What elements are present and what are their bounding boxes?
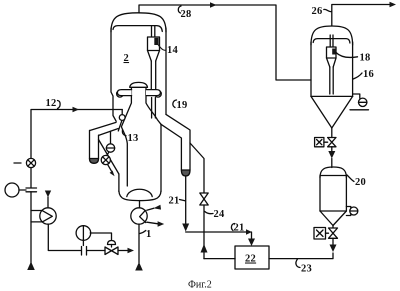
vessel 16 dome bbox=[311, 26, 353, 45]
lance 18 cone bbox=[327, 58, 330, 67]
lance 18 stem bbox=[329, 35, 331, 47]
label 26 squiggle bbox=[324, 9, 332, 11]
wire valve out + arrow bbox=[87, 250, 105, 252]
vessel 2 inner dome line bbox=[113, 26, 162, 32]
lance 18 dark insert bbox=[332, 49, 336, 55]
inlet arrow bottom (line 1) bbox=[135, 262, 143, 271]
wire orifice down bbox=[30, 192, 32, 263]
wire line 28 top from vessel 2 to right bbox=[139, 5, 311, 80]
funnel left diagonal bbox=[99, 140, 119, 175]
arrow on line 12 bbox=[73, 107, 80, 112]
vessel 16 cone bbox=[311, 96, 332, 128]
label 16 leader bbox=[353, 73, 362, 79]
baffle left arm bbox=[117, 91, 124, 98]
vessel 16 right wall bbox=[352, 42, 354, 96]
wire pump P1 discharge bbox=[48, 224, 80, 250]
svg-text:28: 28 bbox=[181, 9, 192, 20]
label 14 leader bbox=[158, 45, 167, 51]
node circle 13 bbox=[119, 115, 125, 121]
lance 14 stem bbox=[151, 26, 153, 37]
wire 1 below pump bbox=[138, 224, 140, 263]
svg-text:Фиг.2: Фиг.2 bbox=[188, 280, 212, 291]
wire valve to line 23 bbox=[332, 238, 334, 245]
vessel 20 inner dome line bbox=[320, 175, 346, 177]
spray arrow bbox=[108, 164, 112, 171]
orifice flange pair bbox=[26, 187, 37, 189]
vessel 2 outer shell dome bbox=[111, 13, 166, 32]
svg-text:2: 2 bbox=[124, 53, 130, 64]
vessel 16 side blower stub bbox=[353, 94, 360, 98]
wire box22 left to line24 bbox=[204, 258, 235, 260]
wire line 12 bbox=[31, 110, 122, 159]
pump P2 top arrow line bbox=[147, 208, 154, 210]
wire 26 out top bbox=[332, 5, 390, 27]
funnel neck left + bell left edge bbox=[121, 87, 131, 186]
label 19 leader bbox=[173, 100, 177, 108]
lance 18 tube bbox=[329, 67, 331, 94]
label 21 right leader bbox=[231, 224, 234, 231]
svg-text:21: 21 bbox=[234, 223, 245, 234]
label 13 leader bbox=[122, 130, 126, 136]
vessel 2 right wall bbox=[165, 28, 167, 114]
svg-text:20: 20 bbox=[355, 177, 366, 188]
vessel 20 blower circle bbox=[350, 207, 358, 215]
label 21 left leader bbox=[180, 200, 186, 201]
outlet pipe 19 top wall bbox=[166, 114, 190, 170]
outlet duct left lower wall bbox=[99, 129, 118, 136]
lance 14 tube lower bbox=[151, 98, 153, 119]
wire valve to orifice bbox=[30, 168, 32, 188]
label 20 leader bbox=[347, 175, 354, 182]
vessel 16 bottom line bbox=[311, 95, 353, 97]
lance 14 cone bbox=[148, 51, 152, 62]
rotary valve RV2 bbox=[329, 228, 338, 233]
svg-text:23: 23 bbox=[301, 264, 312, 275]
svg-text:12: 12 bbox=[46, 98, 57, 109]
wire into pump P1 bottom-left bbox=[31, 221, 42, 223]
left dip tube cap bbox=[90, 159, 99, 164]
wire valve to vessel 20 bbox=[331, 147, 333, 152]
instrument I2 bbox=[76, 226, 91, 241]
flange pair on discharge bbox=[81, 247, 83, 256]
label 28 leader hook bbox=[178, 6, 181, 13]
lance 14 tube upper bbox=[150, 61, 152, 90]
blower circle bbox=[359, 98, 367, 106]
arrow on line 28 bbox=[210, 2, 217, 7]
left dip tube wall left bbox=[89, 130, 91, 158]
spray instrument stem bbox=[110, 131, 112, 144]
left dip tube wall right bbox=[98, 135, 100, 158]
svg-text:1: 1 bbox=[146, 229, 152, 240]
valve 24 bbox=[200, 193, 208, 199]
box 22 bbox=[235, 246, 269, 269]
tap line to valve 24 bbox=[190, 143, 204, 193]
vessel 20 left wall bbox=[319, 176, 321, 211]
funnel neck right + bell right edge bbox=[146, 87, 161, 124]
wire cone16 to valve bbox=[331, 128, 333, 138]
spray valve bbox=[107, 152, 109, 155]
wire vessel2 to pump bbox=[139, 201, 141, 209]
vessel 16 inner dome line bbox=[313, 39, 350, 43]
label 12 leader bbox=[58, 101, 61, 109]
outlet pipe 19 bottom wall bbox=[161, 124, 181, 170]
inlet arrow bottom left bbox=[27, 262, 35, 271]
control valve CV1 bbox=[108, 241, 116, 245]
svg-text:14: 14 bbox=[167, 45, 179, 56]
pump P2 under vessel 2 bbox=[131, 208, 147, 224]
wire 23 from box22 right bbox=[269, 253, 333, 259]
outlet duct left upper wall bbox=[90, 122, 116, 130]
label 24 leader bbox=[205, 212, 213, 214]
lance 14 body bbox=[148, 37, 160, 51]
rotary valve RV1 bbox=[328, 138, 336, 143]
vessel 2 left wall bbox=[111, 28, 116, 121]
baffle mushroom cap 13 bbox=[130, 82, 148, 87]
valve V1 on left feed line bbox=[26, 158, 35, 167]
wire I2 to valve bbox=[90, 233, 111, 240]
wire into pump P1 top-left bbox=[31, 210, 42, 212]
vessel 20 dome bbox=[320, 167, 346, 178]
label 1 leader bbox=[140, 231, 146, 234]
leg inner dome bbox=[127, 189, 152, 196]
box actuator M1 bbox=[315, 138, 324, 147]
up arrow on line 24 bbox=[201, 244, 208, 253]
baffle right arm bbox=[155, 91, 162, 98]
pump P2 bottom arrow line bbox=[147, 222, 158, 224]
label 18 leader bbox=[336, 53, 358, 58]
svg-text:24: 24 bbox=[214, 209, 226, 220]
label 23 leader bbox=[296, 259, 300, 268]
feed nozzle stem into duct bbox=[118, 120, 122, 130]
leg bowl bottom bbox=[119, 191, 161, 201]
vessel 20 bottom line bbox=[320, 210, 346, 212]
funnel leg right wall bbox=[160, 124, 162, 191]
lance 18 body bbox=[327, 47, 337, 58]
svg-text:21: 21 bbox=[169, 196, 180, 207]
pump P1 bbox=[40, 208, 56, 224]
svg-text:26: 26 bbox=[312, 6, 323, 17]
vessel 20 side stub bbox=[346, 207, 350, 216]
vessel 20 right wall bbox=[345, 176, 347, 211]
lance 14 dark insert bbox=[154, 38, 158, 45]
svg-text:13: 13 bbox=[128, 133, 139, 144]
svg-text:19: 19 bbox=[177, 100, 188, 111]
wire cone20 to valve bbox=[332, 226, 334, 229]
vessel 20 cone bbox=[320, 211, 333, 226]
funnel leg left wall bbox=[118, 174, 120, 192]
pipe 19 dip cap bbox=[181, 170, 190, 176]
vessel 16 left wall bbox=[310, 42, 312, 96]
svg-text:18: 18 bbox=[360, 53, 371, 64]
svg-text:22: 22 bbox=[245, 254, 256, 265]
spray instrument circle bbox=[106, 144, 114, 152]
wire 24 down to bottom bbox=[203, 205, 205, 259]
svg-text:16: 16 bbox=[363, 69, 374, 80]
wire 21 left down bbox=[185, 176, 187, 226]
wire 21 horizontal bbox=[186, 231, 247, 233]
pump P1 inlet arrow from top bbox=[47, 197, 49, 208]
instrument I1 left bbox=[5, 183, 19, 197]
box actuator M2 bbox=[314, 228, 326, 240]
